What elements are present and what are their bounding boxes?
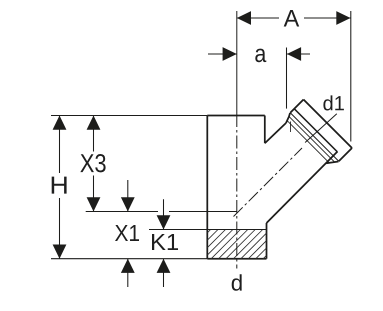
centerline vertical dash-dot: [236, 114, 238, 269]
branch socket end face: [304, 100, 353, 149]
X3 top arrow: [87, 116, 101, 130]
H bottom arrow: [53, 245, 67, 259]
label d: [232, 274, 242, 291]
X1 bottom arrow: [121, 259, 135, 273]
leader line d1: [305, 114, 337, 143]
label d1: [323, 95, 343, 110]
X3 bottom arrow: [87, 197, 101, 211]
a left arrow tail: [208, 53, 237, 55]
label H: [52, 177, 67, 194]
a right extension line: [286, 48, 288, 109]
label X1: [115, 225, 139, 241]
K1 arrow tails: [163, 199, 165, 287]
branch socket upper silhouette: [290, 100, 303, 113]
body right upper edge: [264, 116, 266, 144]
A dimension line: [237, 17, 351, 19]
branch centerline dash-dot: [234, 148, 303, 217]
branch socket lower cone: [326, 162, 338, 164]
socket weld-zone hatch stroke: [290, 122, 292, 133]
branch socket lower silhouette: [339, 148, 352, 161]
A right extension line: [350, 11, 352, 142]
label a: [255, 49, 266, 63]
H top arrow: [53, 116, 67, 130]
section hatch: [207, 230, 266, 259]
X1 arrow tails: [127, 180, 129, 287]
A left arrow: [237, 11, 251, 25]
K1 top arrow: [157, 215, 171, 229]
socket ring R3: [289, 116, 335, 162]
socket ring R4: [287, 121, 329, 163]
X1/X3 level line: [86, 211, 237, 213]
branch upper wall: [265, 123, 286, 143]
branch lower wall: [267, 152, 338, 224]
H dimension line: [59, 116, 61, 259]
extension line top: [51, 115, 207, 117]
a arrow pointing left: [287, 47, 301, 61]
A right arrow: [336, 11, 350, 25]
centerline vertical solid extension for A/a: [236, 11, 238, 114]
a arrow pointing right: [223, 47, 237, 61]
K1 bottom arrow: [157, 259, 171, 273]
body right lower edge: [266, 223, 268, 259]
fitting body outline: [207, 100, 352, 259]
body left edge: [206, 116, 208, 259]
socket ring R2: [294, 109, 337, 152]
K1 level line: [149, 229, 267, 231]
socket ring R1 (lip): [290, 113, 339, 162]
body top edge: [207, 115, 264, 117]
label X3: [80, 154, 105, 172]
label K1: [152, 234, 178, 250]
body bottom edge: [207, 258, 266, 260]
branch socket upper cone: [286, 113, 290, 123]
X1 top arrow: [121, 197, 135, 211]
X3 dimension line: [93, 116, 95, 212]
label A: [284, 10, 300, 26]
a right arrow tail: [287, 53, 310, 55]
extension line bottom: [51, 258, 207, 260]
